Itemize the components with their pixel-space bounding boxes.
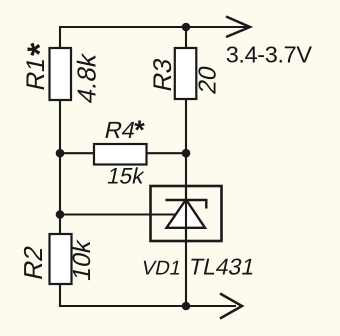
svg-text:VD1: VD1: [140, 257, 184, 279]
node bottom junction: [182, 302, 191, 311]
wire through VD1: [185, 186, 187, 241]
shunt regulator VD1 box: [151, 186, 222, 241]
wire R4 row: [60, 152, 186, 154]
wire left rail: [59, 26, 61, 307]
resistor R3: [175, 48, 197, 99]
arrow bottom output: [220, 294, 242, 319]
VD1 zener triangle: [167, 200, 206, 228]
node ref junction: [56, 210, 65, 219]
svg-text:15k: 15k: [105, 163, 147, 189]
wire top rail: [60, 26, 247, 28]
svg-text:R3: R3: [149, 56, 177, 94]
arrow top output: [226, 17, 250, 38]
svg-text:R2: R2: [18, 243, 48, 283]
svg-text:TL431: TL431: [187, 254, 258, 280]
resistor R1: [50, 48, 72, 100]
svg-text:20: 20: [195, 63, 222, 96]
wire bottom rail: [60, 305, 236, 307]
resistor R2: [50, 234, 72, 284]
wire TL431 reference: [60, 213, 176, 215]
svg-text:10k: 10k: [68, 237, 96, 284]
node R4 right junction: [182, 149, 191, 158]
svg-text:R1: R1: [22, 55, 50, 93]
svg-text:3.4-3.7V: 3.4-3.7V: [226, 41, 313, 67]
svg-text:*: *: [134, 115, 145, 145]
VD1 cathode bar: [166, 200, 207, 209]
svg-text:*: *: [21, 42, 59, 56]
node R4 left junction: [56, 149, 65, 158]
resistor R4: [94, 144, 147, 165]
wire right vertical: [185, 27, 187, 306]
svg-text:4.8k: 4.8k: [72, 50, 102, 106]
svg-text:R4: R4: [102, 117, 138, 144]
node top junction: [182, 23, 191, 32]
